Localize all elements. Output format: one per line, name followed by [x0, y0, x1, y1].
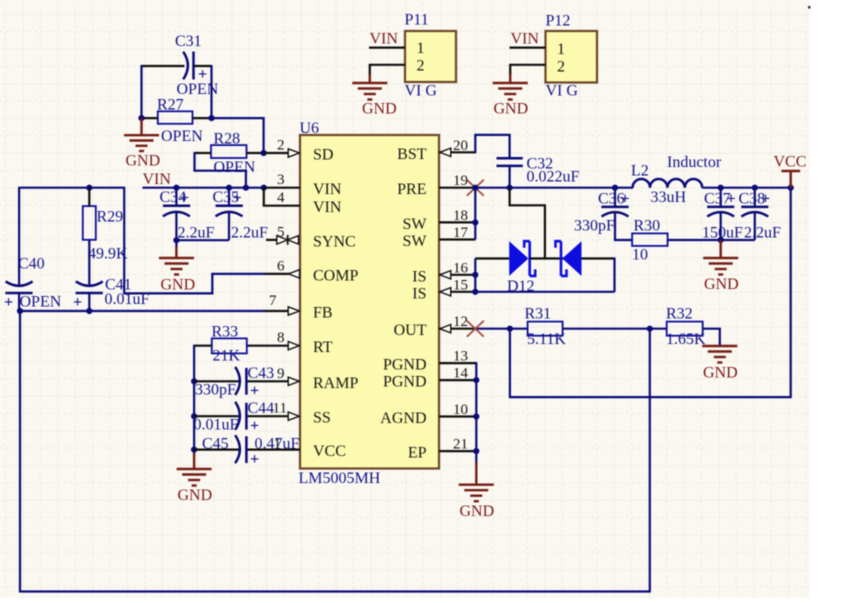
- svg-text:PGND: PGND: [383, 374, 427, 391]
- pin SW 18: [403, 208, 476, 233]
- capacitor C35: [213, 188, 243, 241]
- ground under C34/C35: [159, 240, 195, 293]
- svg-text:+: +: [233, 190, 242, 207]
- resistor R29: [83, 188, 128, 287]
- node C32 bottom: [507, 185, 513, 191]
- svg-text:OPEN: OPEN: [20, 294, 62, 311]
- pin AGND 10: [380, 402, 476, 427]
- svg-text:VCC: VCC: [774, 154, 807, 171]
- ground at P12: [493, 74, 528, 118]
- svg-text:12: 12: [453, 314, 468, 330]
- pin EP 21: [408, 437, 476, 462]
- svg-text:+: +: [761, 191, 770, 208]
- svg-text:R30: R30: [634, 218, 661, 235]
- svg-text:18: 18: [453, 208, 468, 224]
- op-amp U6 body LM5005MH: [299, 120, 440, 487]
- area outside sheet: [810, 0, 848, 598]
- node VCC junction: [788, 185, 794, 191]
- wire VIN horizontal: [142, 187, 264, 189]
- pin OUT 12: [394, 314, 476, 339]
- svg-text:SW: SW: [403, 216, 428, 233]
- wire C31 left lead: [142, 65, 185, 67]
- ground under C45 rail: [177, 453, 213, 504]
- capacitor C40: [4, 187, 62, 311]
- node FB/C41: [86, 308, 92, 314]
- node VIN/pin3-4: [261, 185, 267, 191]
- node FB/C40: [17, 308, 23, 314]
- svg-text:2.2uF: 2.2uF: [744, 225, 781, 242]
- svg-text:OUT: OUT: [394, 322, 427, 339]
- wire BST to C32: [475, 135, 509, 158]
- svg-text:0.01uF: 0.01uF: [194, 417, 239, 434]
- svg-text:2: 2: [277, 138, 285, 154]
- ground under R32: [702, 346, 737, 382]
- wire P12 pin2: [510, 65, 545, 76]
- svg-text:+: +: [250, 383, 259, 400]
- svg-text:7: 7: [269, 293, 277, 309]
- wire R28 left lead: [195, 152, 212, 154]
- svg-text:VCC: VCC: [313, 443, 346, 460]
- svg-text:IS: IS: [412, 268, 426, 285]
- svg-text:17: 17: [453, 225, 469, 241]
- capacitor C41: [73, 277, 150, 312]
- svg-text:10: 10: [632, 247, 648, 264]
- capacitor C34: [160, 188, 191, 241]
- node OUT/VCC-rail: [507, 326, 513, 332]
- svg-text:5: 5: [277, 224, 285, 240]
- wire R27 left lead: [142, 117, 158, 119]
- svg-text:1.65K: 1.65K: [666, 331, 706, 348]
- svg-text:D12: D12: [507, 278, 535, 295]
- svg-text:OPEN: OPEN: [161, 128, 203, 145]
- svg-text:4: 4: [277, 190, 285, 206]
- pin FB 7: [264, 293, 333, 322]
- svg-text:+: +: [250, 451, 259, 468]
- svg-text:AGND: AGND: [380, 410, 426, 427]
- svg-text:GND: GND: [494, 101, 529, 118]
- svg-text:IS: IS: [412, 285, 426, 302]
- pin SYNC 5: [266, 224, 356, 250]
- node rail/C45: [191, 447, 197, 453]
- svg-text:RAMP: RAMP: [313, 375, 358, 392]
- svg-text:GND: GND: [178, 487, 213, 504]
- pin PGND 13: [383, 349, 476, 374]
- wire OUT line: [475, 328, 527, 330]
- svg-text:+: +: [250, 417, 259, 434]
- pin BST 20: [397, 138, 475, 163]
- svg-text:C31: C31: [175, 33, 202, 50]
- resistor R33: [194, 324, 247, 365]
- capacitor C37: [702, 188, 743, 242]
- svg-text:+: +: [727, 191, 736, 208]
- svg-text:VIN: VIN: [511, 31, 540, 48]
- svg-text:PGND: PGND: [383, 357, 427, 374]
- diode D12 pair: [472, 241, 614, 295]
- wire drop C32node to D12 center: [510, 188, 545, 259]
- svg-text:+: +: [621, 191, 630, 208]
- capacitor C32: [497, 156, 580, 188]
- wire L2 out to VCC corner: [702, 187, 791, 189]
- node divider mid: [647, 326, 653, 332]
- node C31/R27 right junction: [208, 115, 214, 121]
- svg-text:BST: BST: [397, 146, 427, 163]
- resistor R27: [142, 97, 212, 146]
- wire C31-right down to SD node: [210, 65, 212, 118]
- svg-text:14: 14: [453, 366, 469, 382]
- svg-text:GND: GND: [704, 276, 739, 293]
- svg-text:6: 6: [277, 258, 285, 274]
- pin VCC 1: [246, 437, 346, 461]
- wire SW vertical to pins 18/17: [474, 188, 476, 240]
- svg-text:LM5005MH: LM5005MH: [299, 470, 381, 487]
- wire between R31 and R32: [563, 328, 667, 330]
- svg-text:VI G: VI G: [405, 83, 438, 100]
- svg-text:VIN: VIN: [313, 181, 342, 198]
- svg-text:PRE: PRE: [397, 181, 426, 198]
- pin COMP 6: [264, 258, 358, 284]
- node C34/C35 gnd junction: [173, 237, 179, 243]
- svg-text:15: 15: [453, 277, 468, 293]
- wire R27 right lead: [193, 117, 212, 119]
- wire anode line left: [475, 257, 509, 259]
- pin PGND 14: [383, 366, 476, 391]
- wire VCC rail down/left to OUT node: [510, 188, 791, 397]
- svg-text:GND: GND: [126, 153, 161, 170]
- wire RT/RAMP/SS/VCC rail: [193, 345, 195, 455]
- pin IS 15: [412, 277, 475, 302]
- wire between diodes: [530, 257, 564, 259]
- wire R28 left to VIN line: [195, 152, 246, 188]
- svg-text:VI G: VI G: [546, 83, 579, 100]
- pin SD 2: [264, 138, 334, 164]
- svg-text:GND: GND: [703, 365, 738, 382]
- diode D12 left element: [509, 241, 528, 276]
- svg-text:10: 10: [453, 402, 468, 418]
- svg-text:9: 9: [277, 366, 285, 382]
- node VIN/R28: [243, 185, 249, 191]
- wire COMP routing to pin6: [124, 187, 265, 294]
- svg-text:VIN: VIN: [370, 31, 399, 48]
- sheet corner mark: [808, 6, 811, 9]
- pin VIN 4: [264, 188, 342, 216]
- node pin19/stub: [472, 185, 478, 191]
- svg-text:2: 2: [557, 59, 565, 76]
- svg-text:SW: SW: [403, 233, 428, 250]
- svg-text:3: 3: [277, 172, 285, 188]
- svg-text:150uF: 150uF: [702, 225, 743, 242]
- svg-text:C44: C44: [248, 400, 275, 417]
- svg-text:GND: GND: [362, 101, 397, 118]
- svg-text:33uH: 33uH: [651, 189, 687, 206]
- svg-text:2: 2: [417, 58, 425, 75]
- pin RAMP 9: [246, 366, 358, 392]
- svg-text:C40: C40: [18, 256, 45, 273]
- wire P12 pin1: [510, 46, 546, 48]
- svg-text:+: +: [4, 294, 13, 311]
- svg-text:Inductor: Inductor: [667, 154, 722, 171]
- node C37 top: [718, 185, 724, 191]
- wire D12 right vertical: [613, 258, 615, 292]
- svg-text:FB: FB: [313, 305, 333, 322]
- svg-text:VIN: VIN: [313, 199, 342, 216]
- capacitor C43: [194, 365, 274, 400]
- svg-text:SD: SD: [313, 147, 333, 164]
- svg-text:P12: P12: [546, 13, 571, 30]
- capacitor C44: [194, 400, 275, 435]
- svg-text:5.11K: 5.11K: [527, 331, 566, 348]
- svg-text:SS: SS: [313, 410, 331, 427]
- wire R32 to gnd: [703, 329, 720, 346]
- svg-text:11: 11: [273, 401, 287, 417]
- svg-text:GND: GND: [161, 277, 196, 294]
- svg-text:19: 19: [453, 173, 468, 189]
- wire C31 right lead: [194, 65, 212, 67]
- svg-text:21: 21: [453, 437, 468, 453]
- node rail/C44: [191, 413, 197, 419]
- wire C31-left down to R27 node: [140, 65, 142, 118]
- svg-text:P11: P11: [405, 12, 429, 29]
- resistor R32: [666, 306, 706, 349]
- svg-text:21K: 21K: [213, 348, 241, 365]
- wire FB line: [20, 310, 265, 312]
- svg-text:C43: C43: [248, 365, 275, 382]
- svg-text:2.2uF: 2.2uF: [231, 225, 268, 242]
- svg-text:OPEN: OPEN: [214, 159, 256, 176]
- node R30 line / gnd: [718, 237, 724, 243]
- node C31/R27 left junction: [138, 115, 144, 121]
- svg-text:49.9K: 49.9K: [88, 246, 128, 263]
- ground under EP/AGND: [459, 362, 494, 520]
- svg-text:VIN: VIN: [143, 171, 172, 188]
- svg-text:SYNC: SYNC: [313, 233, 356, 250]
- svg-text:L2: L2: [631, 163, 649, 180]
- svg-text:8: 8: [277, 330, 285, 346]
- svg-text:2.2uF: 2.2uF: [178, 225, 215, 242]
- svg-text:COMP: COMP: [313, 267, 358, 284]
- wire IS vertical: [474, 259, 476, 292]
- node R29 top: [86, 185, 92, 191]
- node pin18: [472, 219, 478, 225]
- svg-text:C45: C45: [202, 436, 229, 453]
- capacitor C31: [142, 33, 219, 98]
- svg-text:0.022uF: 0.022uF: [527, 169, 580, 186]
- svg-text:+: +: [180, 190, 189, 207]
- svg-text:0.47uF: 0.47uF: [255, 436, 300, 453]
- svg-text:330pF: 330pF: [574, 218, 615, 235]
- node pin2/R28 junction: [261, 150, 267, 156]
- power port VCC: [774, 154, 807, 188]
- no-ERC marker pin19: [467, 180, 484, 196]
- wire SW node horizontal (pin19): [475, 187, 633, 189]
- svg-text:1: 1: [417, 40, 425, 57]
- capacitor C36: [574, 188, 632, 240]
- wire C35 bottom to C34 bottom: [176, 239, 229, 241]
- svg-text:GND: GND: [460, 503, 495, 520]
- ground under R27: [124, 118, 160, 169]
- svg-text:R32: R32: [666, 306, 693, 323]
- svg-text:R31: R31: [525, 306, 552, 323]
- svg-text:16: 16: [453, 260, 469, 276]
- wire COMP node horizontal: [20, 187, 124, 189]
- svg-text:EP: EP: [408, 445, 427, 462]
- pin IS 16: [412, 260, 475, 285]
- wire FB feedback rail down and across bottom: [20, 311, 650, 592]
- wire anode line right: [582, 257, 615, 259]
- pin VIN 3: [264, 172, 342, 198]
- pin SW 17: [403, 225, 476, 250]
- ground at P11: [352, 74, 396, 118]
- pin PRE 19: [397, 173, 475, 198]
- connector P12: [510, 13, 598, 100]
- node VIN/C35: [226, 185, 232, 191]
- svg-text:20: 20: [453, 138, 468, 154]
- wire P11 pin1: [369, 46, 405, 48]
- wire R28 right lead: [247, 152, 264, 154]
- svg-text:+: +: [73, 294, 82, 311]
- connector P11: [369, 12, 456, 100]
- svg-text:R29: R29: [97, 209, 124, 226]
- capacitor C38: [739, 188, 782, 242]
- wire P11 pin2: [370, 65, 405, 76]
- wire D12 bottom: [475, 291, 614, 293]
- node C38 top: [752, 185, 758, 191]
- node rail/C43: [191, 378, 197, 384]
- inductor L2: [631, 154, 722, 206]
- node VIN/C34: [173, 185, 179, 191]
- diode D12 right element: [562, 241, 581, 276]
- pin RT 8: [247, 330, 333, 356]
- wire R27/SD node to pin2: [212, 118, 264, 153]
- svg-text:RT: RT: [313, 339, 333, 356]
- svg-text:0.01uF: 0.01uF: [105, 291, 150, 308]
- svg-text:13: 13: [453, 349, 468, 365]
- ground under C37/C38/R30: [703, 240, 738, 293]
- no-ERC marker pin12: [467, 321, 484, 337]
- resistor R28: [195, 131, 264, 177]
- svg-text:1: 1: [557, 41, 565, 58]
- resistor R30: [632, 218, 755, 264]
- svg-text:330pF: 330pF: [195, 382, 236, 399]
- node C36 top: [612, 185, 618, 191]
- capacitor C45: [194, 435, 299, 468]
- pin SS 11: [246, 401, 330, 427]
- resistor R31: [525, 306, 567, 349]
